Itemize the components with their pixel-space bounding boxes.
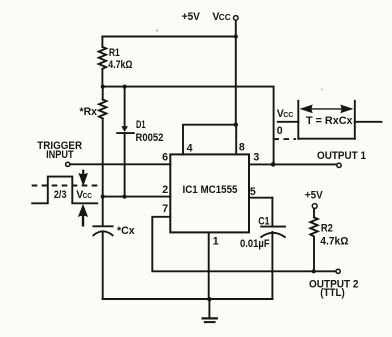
svg-text:T = RxCx: T = RxCx bbox=[306, 115, 353, 127]
svg-text:8: 8 bbox=[239, 142, 245, 154]
svg-text:IC1 MC1555: IC1 MC1555 bbox=[183, 184, 238, 196]
svg-text:4: 4 bbox=[187, 143, 193, 155]
svg-text:2/3: 2/3 bbox=[54, 189, 67, 201]
svg-text:3: 3 bbox=[253, 152, 259, 164]
svg-text:+5V: +5V bbox=[305, 190, 323, 202]
svg-text:C1: C1 bbox=[258, 215, 269, 227]
svg-text:5: 5 bbox=[250, 186, 256, 198]
svg-text:CC: CC bbox=[219, 13, 231, 22]
svg-text:R1: R1 bbox=[109, 47, 120, 59]
svg-text:0: 0 bbox=[277, 125, 283, 137]
svg-text:CC: CC bbox=[83, 191, 93, 200]
svg-text:*Cx: *Cx bbox=[117, 225, 135, 237]
svg-text:4.7kΩ: 4.7kΩ bbox=[108, 59, 133, 71]
svg-text:OUTPUT 1: OUTPUT 1 bbox=[317, 150, 366, 162]
svg-text:D1: D1 bbox=[136, 119, 146, 131]
svg-text:+5V: +5V bbox=[182, 11, 200, 23]
svg-text:0.01µF: 0.01µF bbox=[240, 238, 270, 250]
svg-text:2: 2 bbox=[162, 184, 168, 196]
svg-text:R2: R2 bbox=[321, 223, 333, 235]
svg-text:4.7kΩ: 4.7kΩ bbox=[320, 235, 349, 247]
svg-text:7: 7 bbox=[162, 203, 168, 215]
svg-text:*Rx: *Rx bbox=[80, 106, 98, 118]
svg-text:6: 6 bbox=[162, 152, 168, 164]
svg-text:(TTL): (TTL) bbox=[320, 287, 345, 299]
svg-text:1: 1 bbox=[213, 236, 219, 248]
svg-text:CC: CC bbox=[283, 110, 294, 119]
svg-text:INPUT: INPUT bbox=[46, 149, 74, 161]
svg-text:R0052: R0052 bbox=[136, 132, 164, 144]
